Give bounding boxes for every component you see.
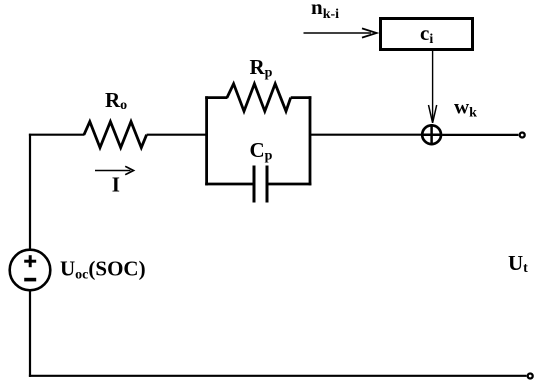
box ci xyxy=(381,19,473,50)
RC top branch wire right xyxy=(291,96,312,99)
svg-text:I: I xyxy=(112,173,120,197)
wire top horizontal middle segment xyxy=(147,134,207,136)
voltage source plus sign xyxy=(24,255,36,267)
voltage source Uoc circle xyxy=(10,250,51,291)
RC bottom branch wire right xyxy=(267,183,311,186)
wire left vertical upper xyxy=(29,134,31,249)
wire top horizontal left segment xyxy=(29,134,85,136)
wire from RC network to summing junction xyxy=(310,134,421,136)
arrow from box ci down to summing junction xyxy=(429,50,437,123)
RC network right vertical xyxy=(309,96,312,185)
capacitor Cp left plate xyxy=(253,166,256,203)
current arrow xyxy=(95,166,134,174)
wire bottom horizontal xyxy=(29,375,527,377)
RC network left vertical xyxy=(205,96,208,185)
arrow n_k-i into box xyxy=(304,28,377,37)
resistor Rp zigzag xyxy=(227,84,291,111)
wire from summing junction to output terminal xyxy=(442,134,518,136)
output terminal top xyxy=(520,133,525,138)
summing junction xyxy=(421,124,442,145)
RC bottom branch wire left xyxy=(205,183,254,186)
RC top branch wire left xyxy=(205,96,227,99)
wire left vertical lower xyxy=(29,291,31,377)
resistor R0 zigzag xyxy=(84,122,147,148)
voltage source minus sign xyxy=(24,278,36,282)
svg-text:Uoc(SOC): Uoc(SOC) xyxy=(60,257,146,283)
capacitor Cp right plate xyxy=(266,166,269,203)
output terminal bottom xyxy=(528,374,533,379)
